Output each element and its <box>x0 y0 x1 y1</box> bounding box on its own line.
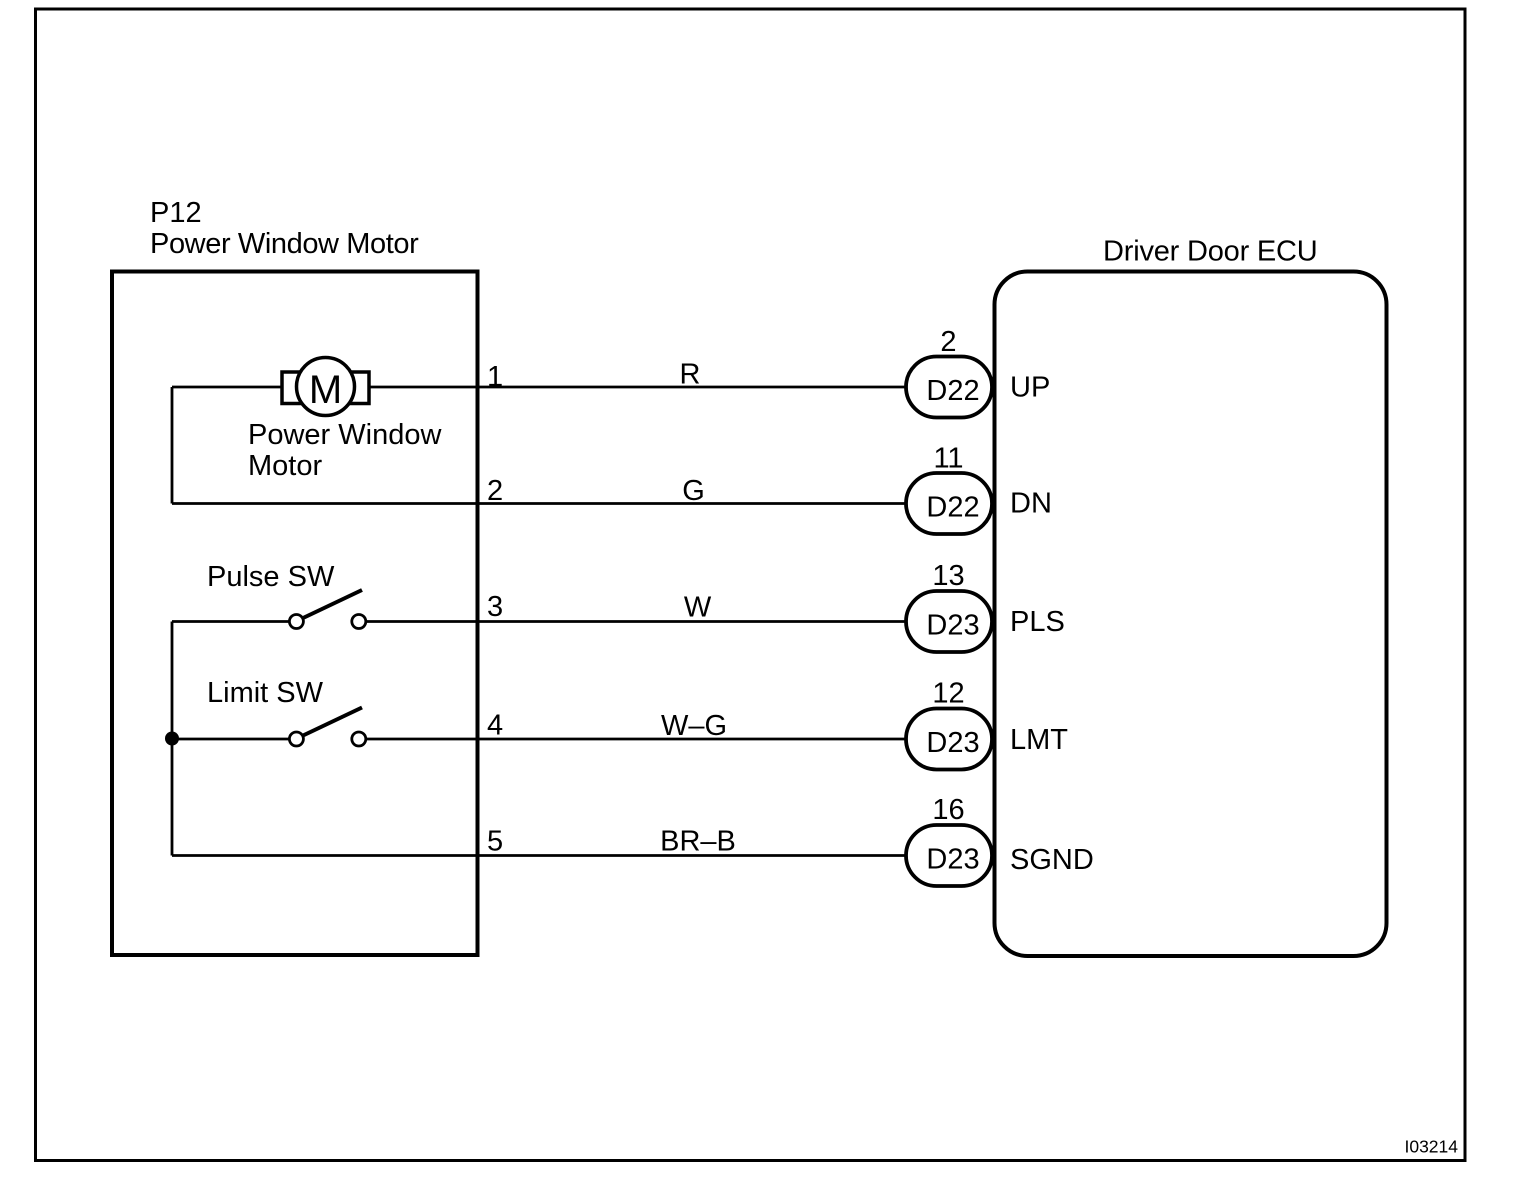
svg-text:Motor: Motor <box>248 450 322 482</box>
svg-text:16: 16 <box>932 794 964 826</box>
svg-text:R: R <box>680 359 701 391</box>
svg-text:D23: D23 <box>926 844 979 876</box>
svg-text:M: M <box>309 368 342 412</box>
svg-text:BR–B: BR–B <box>660 826 736 858</box>
svg-text:Power Window Motor: Power Window Motor <box>150 228 419 260</box>
svg-text:SGND: SGND <box>1010 844 1094 876</box>
svg-text:D22: D22 <box>926 492 979 524</box>
svg-text:Power Window: Power Window <box>248 419 442 451</box>
svg-text:P12: P12 <box>150 197 202 229</box>
svg-text:Pulse SW: Pulse SW <box>207 561 335 593</box>
svg-text:D23: D23 <box>926 610 979 642</box>
svg-text:Driver Door ECU: Driver Door ECU <box>1103 236 1318 268</box>
svg-text:I03214: I03214 <box>1404 1137 1458 1157</box>
svg-text:G: G <box>682 475 705 507</box>
svg-text:PLS: PLS <box>1010 606 1065 638</box>
svg-text:LMT: LMT <box>1010 724 1068 756</box>
svg-text:UP: UP <box>1010 372 1050 404</box>
svg-text:D22: D22 <box>926 375 979 407</box>
svg-text:3: 3 <box>487 591 503 623</box>
svg-text:12: 12 <box>932 678 964 710</box>
svg-text:W–G: W–G <box>661 710 727 742</box>
svg-text:1: 1 <box>487 361 503 393</box>
svg-text:Limit SW: Limit SW <box>207 677 324 709</box>
svg-text:W: W <box>684 592 712 624</box>
svg-text:D23: D23 <box>926 727 979 759</box>
svg-text:13: 13 <box>932 560 964 592</box>
svg-text:4: 4 <box>487 710 503 742</box>
svg-text:5: 5 <box>487 826 503 858</box>
svg-text:11: 11 <box>933 443 963 475</box>
svg-text:DN: DN <box>1010 488 1052 520</box>
svg-text:2: 2 <box>487 475 503 507</box>
svg-text:2: 2 <box>940 326 956 358</box>
